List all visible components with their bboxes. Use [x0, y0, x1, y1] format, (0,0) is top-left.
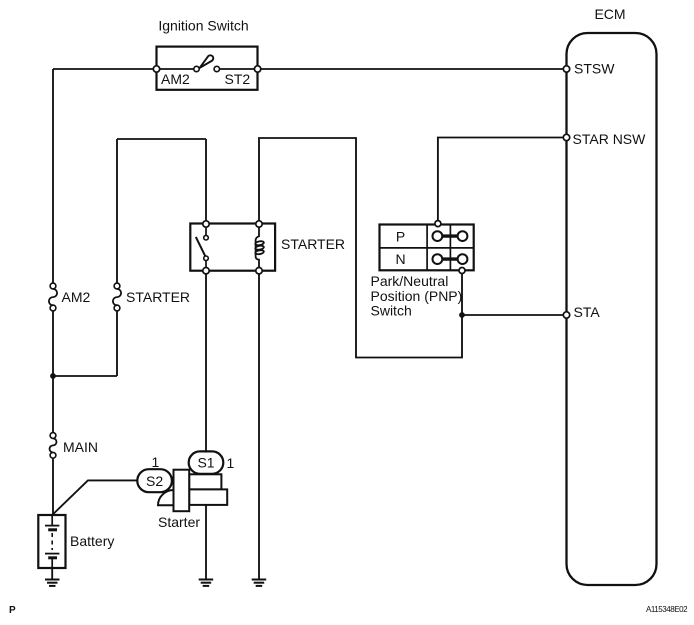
- svg-text:S2: S2: [146, 473, 163, 489]
- svg-text:STARTER: STARTER: [126, 289, 190, 305]
- svg-text:Ignition Switch: Ignition Switch: [158, 18, 248, 34]
- svg-text:N: N: [395, 251, 405, 267]
- svg-text:AM2: AM2: [62, 289, 91, 305]
- svg-text:STSW: STSW: [574, 61, 615, 77]
- svg-text:P: P: [396, 228, 405, 244]
- svg-text:MAIN: MAIN: [63, 439, 98, 455]
- svg-text:ST2: ST2: [225, 71, 251, 87]
- svg-text:STAR NSW: STAR NSW: [573, 131, 647, 147]
- svg-text:P: P: [9, 605, 16, 616]
- svg-text:AM2: AM2: [161, 71, 190, 87]
- svg-text:ECM: ECM: [594, 6, 625, 22]
- svg-text:STA: STA: [574, 304, 601, 320]
- svg-text:S1: S1: [197, 455, 214, 471]
- svg-text:1: 1: [227, 455, 235, 471]
- svg-text:STARTER: STARTER: [281, 236, 345, 252]
- svg-text:Position (PNP): Position (PNP): [371, 288, 463, 304]
- svg-text:Park/Neutral: Park/Neutral: [371, 273, 449, 289]
- svg-text:A115348E02: A115348E02: [646, 605, 688, 614]
- svg-text:1: 1: [152, 454, 160, 470]
- svg-text:Battery: Battery: [70, 533, 114, 549]
- svg-text:Starter: Starter: [158, 514, 200, 530]
- svg-text:Switch: Switch: [371, 303, 412, 319]
